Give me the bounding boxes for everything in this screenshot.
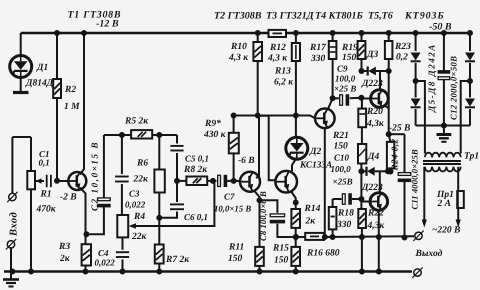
svg-text:Д223: Д223 [361,79,383,89]
svg-text:Д3: Д3 [366,50,378,60]
svg-text:22к: 22к [133,175,150,185]
svg-text:×25 В: ×25 В [334,84,356,94]
svg-text:С8 100,0×6 В: С8 100,0×6 В [258,191,268,241]
svg-text:R11: R11 [228,243,244,253]
svg-text:R16 680: R16 680 [306,249,340,259]
svg-text:6,2 к: 6,2 к [274,78,294,88]
svg-text:R10: R10 [230,42,247,52]
svg-text:Д223: Д223 [361,183,383,193]
svg-text:R6: R6 [136,159,148,169]
svg-text:R3: R3 [58,242,70,252]
svg-text:4,3 к: 4,3 к [228,53,249,63]
svg-text:330: 330 [336,220,352,230]
svg-text:С11 4000,0×25В: С11 4000,0×25В [410,149,420,209]
svg-text:R18: R18 [337,209,354,219]
svg-text:С3: С3 [129,189,140,199]
svg-text:R17: R17 [309,43,327,53]
svg-text:Т5,Т6: Т5,Т6 [368,11,393,22]
svg-text:430 к: 430 к [203,130,227,140]
svg-text:R22: R22 [367,209,384,219]
svg-text:22к: 22к [131,232,148,242]
svg-text:R14: R14 [304,204,321,214]
svg-text:КС133А: КС133А [299,161,332,171]
svg-text:R4: R4 [133,212,145,222]
svg-text:150: 150 [274,256,289,266]
svg-text:С4: С4 [98,248,109,258]
svg-text:Т3 ГТ321Д: Т3 ГТ321Д [266,11,315,22]
svg-text:R24 0,2: R24 0,2 [390,138,400,171]
svg-text:R23: R23 [394,42,411,52]
svg-text:Д4: Д4 [367,152,379,162]
svg-text:100,0: 100,0 [331,164,352,174]
svg-text:4,3к: 4,3к [367,221,386,231]
svg-text:R12: R12 [269,43,286,53]
svg-text:1 М: 1 М [64,102,80,112]
svg-text:С2 10,0×15 В: С2 10,0×15 В [90,141,100,211]
svg-text:-12 В: -12 В [96,19,119,30]
svg-text:Т4 КТ801Б: Т4 КТ801Б [315,11,363,22]
svg-text:2к: 2к [305,217,317,227]
svg-text:R8 2к: R8 2к [183,165,208,175]
svg-text:Д5-Д8 Д242А: Д5-Д8 Д242А [427,43,437,113]
svg-text:С7: С7 [224,192,235,202]
svg-text:0,2: 0,2 [396,53,408,63]
svg-text:R19: R19 [341,43,358,53]
svg-text:R15: R15 [272,244,289,254]
svg-text:С10: С10 [334,153,350,163]
svg-text:С6 0,1: С6 0,1 [184,212,208,222]
svg-text:R2: R2 [64,85,76,95]
svg-text:R21: R21 [332,131,349,141]
svg-text:Выход: Выход [415,249,443,259]
svg-text:R5 2к: R5 2к [124,117,149,127]
svg-text:0,1: 0,1 [39,158,50,168]
svg-text:-25 В: -25 В [389,124,410,134]
svg-text:~220 В: ~220 В [432,226,460,236]
svg-text:150: 150 [228,254,243,264]
svg-text:Д2: Д2 [309,147,321,157]
svg-text:Д814Д: Д814Д [25,79,54,89]
svg-text:R7 2к: R7 2к [165,255,190,265]
svg-text:0,022: 0,022 [95,258,116,268]
svg-text:Тр1: Тр1 [464,152,479,162]
svg-text:330: 330 [310,54,326,64]
svg-text:2к: 2к [59,254,71,264]
svg-text:150: 150 [342,53,357,63]
svg-text:4,3к: 4,3к [366,119,385,129]
svg-text:0,022: 0,022 [125,200,146,210]
svg-text:R9*: R9* [204,119,221,129]
svg-text:150: 150 [334,142,349,152]
svg-text:Д1: Д1 [36,63,48,73]
svg-text:R20: R20 [366,107,383,117]
svg-text:10,0×15 В: 10,0×15 В [214,204,251,214]
svg-text:470к: 470к [36,205,57,215]
svg-text:-2 В: -2 В [60,193,77,203]
svg-text:-6 В: -6 В [238,156,255,166]
svg-text:100,0: 100,0 [335,74,356,84]
svg-text:КТ903Б: КТ903Б [404,11,445,22]
svg-text:С5 0,1: С5 0,1 [185,154,209,164]
svg-text:-50 В: -50 В [429,22,452,33]
svg-text:С12 2000,0×50В: С12 2000,0×50В [449,56,459,120]
svg-text:4,3 к: 4,3 к [267,54,288,64]
svg-text:×25В: ×25В [333,177,353,187]
svg-text:R1: R1 [40,190,52,200]
svg-text:2 А: 2 А [437,199,451,209]
svg-text:С9: С9 [337,64,348,74]
svg-text:R13: R13 [274,67,291,77]
svg-text:Вход: Вход [9,212,20,237]
svg-text:Т2 ГТ308В: Т2 ГТ308В [214,11,262,22]
